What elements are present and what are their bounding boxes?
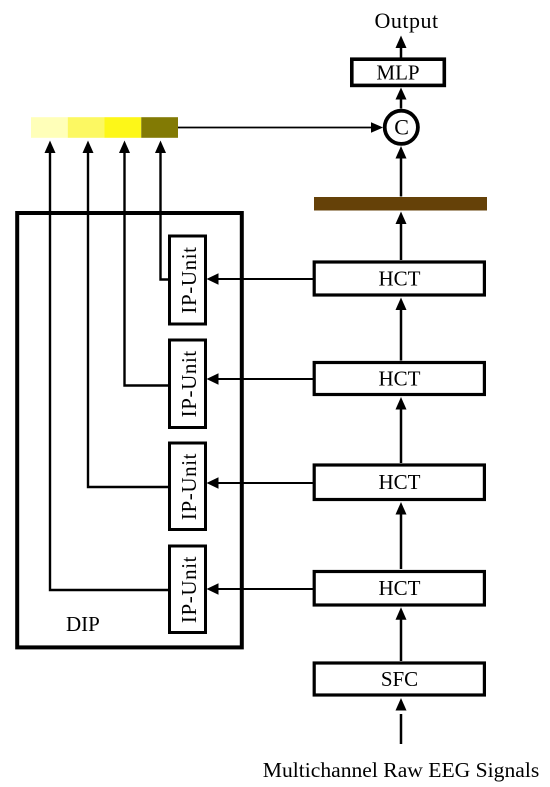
svg-text:IP-Unit: IP-Unit	[177, 556, 201, 623]
svg-text:IP-Unit: IP-Unit	[177, 350, 201, 417]
svg-text:HCT: HCT	[379, 267, 421, 291]
svg-text:HCT: HCT	[379, 470, 421, 494]
svg-text:C: C	[394, 114, 409, 139]
svg-text:SFC: SFC	[381, 667, 418, 691]
svg-text:DIP: DIP	[66, 612, 100, 636]
svg-text:IP-Unit: IP-Unit	[177, 246, 201, 313]
svg-text:HCT: HCT	[379, 367, 421, 391]
svg-text:HCT: HCT	[379, 576, 421, 600]
svg-text:Output: Output	[374, 8, 438, 33]
svg-text:IP-Unit: IP-Unit	[177, 453, 201, 520]
svg-text:MLP: MLP	[376, 61, 419, 85]
svg-text:Multichannel Raw EEG Signals: Multichannel Raw EEG Signals	[263, 758, 539, 782]
